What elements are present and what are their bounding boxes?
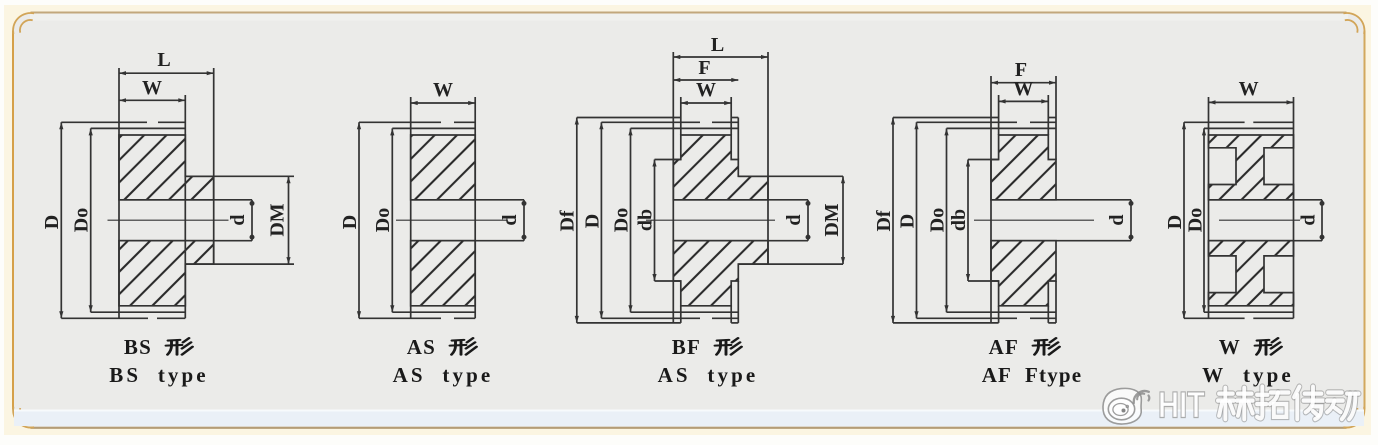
svg-text:d: d xyxy=(1106,214,1128,225)
W root line top xyxy=(1204,127,1294,129)
BS tip line bottom xyxy=(61,317,148,319)
AF web shoulder lines (db) xyxy=(968,159,999,161)
BF flange tip lines top (Df) xyxy=(577,117,681,119)
BF tip line top dashed xyxy=(601,121,700,123)
frame top border xyxy=(31,12,1347,14)
svg-text:D: D xyxy=(41,215,63,229)
AF right flange inner face xyxy=(1047,95,1049,135)
BS hub faces extended to DM dim xyxy=(185,175,294,177)
W hatched section top with side pockets xyxy=(1209,135,1294,200)
svg-text:W: W xyxy=(696,79,716,101)
svg-text:BS type: BS type xyxy=(109,363,208,387)
BS body right edge xyxy=(184,95,186,318)
AF left flange inner face / W extension xyxy=(998,95,1000,135)
dimension d (AF) xyxy=(1130,200,1132,241)
dimension DM (BS) xyxy=(288,176,290,264)
dimension Df (AF) xyxy=(892,118,894,323)
svg-text:Do: Do xyxy=(372,208,394,232)
svg-text:DM: DM xyxy=(267,203,289,236)
svg-text:W type: W type xyxy=(1202,363,1294,387)
AS centerline xyxy=(396,219,508,221)
svg-text:W: W xyxy=(1219,335,1241,359)
AS hatched section bottom xyxy=(411,241,476,306)
svg-text:Df: Df xyxy=(557,210,579,231)
watermark weibo icon xyxy=(1103,388,1149,424)
corner arcs top-right xyxy=(1343,13,1364,34)
dimension d (W) xyxy=(1321,200,1323,241)
dimension W (W) xyxy=(1209,101,1294,103)
dimension db (AF) xyxy=(967,160,969,282)
dimension D (BS) xyxy=(60,122,62,318)
watermark char 动 xyxy=(1327,392,1359,419)
AF flange tip lines top (Df) xyxy=(893,117,999,119)
AS tip line bottom xyxy=(359,317,441,319)
svg-text:BS: BS xyxy=(124,335,152,359)
svg-text:Do: Do xyxy=(1184,208,1206,232)
dimension D (W) xyxy=(1183,122,1185,318)
dimension W (AS) xyxy=(411,102,476,104)
AF root line top xyxy=(947,127,1057,129)
svg-text:d: d xyxy=(1298,214,1320,225)
AS body left edge xyxy=(410,97,412,318)
BF root line bottom xyxy=(631,311,739,313)
svg-text:D: D xyxy=(581,214,603,228)
dimension Do (BS) xyxy=(90,128,92,312)
corner arcs top-left xyxy=(13,13,34,34)
BS hub right edge / L extension xyxy=(213,68,215,264)
W tip line top xyxy=(1184,121,1245,123)
BF tip line bottom xyxy=(601,317,700,319)
BF right flange inner face xyxy=(730,97,732,135)
svg-text:d: d xyxy=(499,214,521,225)
BS body left edge / extension xyxy=(118,68,120,318)
svg-text:db: db xyxy=(634,209,656,231)
BS root line bottom xyxy=(91,311,186,313)
BF hatched section bottom xyxy=(673,241,768,306)
BS centerline xyxy=(108,219,229,221)
svg-text:D: D xyxy=(1164,215,1186,229)
svg-text:F: F xyxy=(698,57,710,79)
svg-text:Df: Df xyxy=(873,210,895,231)
dimension F (BF) xyxy=(673,79,738,81)
svg-text:db: db xyxy=(948,209,970,231)
AS tip line top xyxy=(359,121,441,123)
AF tip line bottom xyxy=(917,317,1018,319)
watermark light band xyxy=(14,410,1364,427)
W body right edge xyxy=(1293,97,1295,318)
AF centerline xyxy=(974,219,1094,221)
svg-text:W: W xyxy=(433,79,453,101)
AF left flange outer face / F extension xyxy=(990,76,992,323)
BF web shoulder lines (db) xyxy=(655,159,681,161)
BF left flange outer face / L,F extension xyxy=(672,52,674,323)
AS root line bottom xyxy=(392,311,475,313)
watermark char 拓 xyxy=(1257,387,1289,419)
svg-text:HIT: HIT xyxy=(1158,385,1205,426)
svg-text:W: W xyxy=(1013,78,1033,100)
svg-text:AF Ftype: AF Ftype xyxy=(982,363,1083,387)
svg-text:Do: Do xyxy=(926,208,948,232)
svg-text:D: D xyxy=(339,215,361,229)
dimension d (BS) xyxy=(251,200,253,241)
dimension F (AF) xyxy=(991,82,1056,84)
svg-text:AS type: AS type xyxy=(393,363,494,387)
AS body right edge xyxy=(474,97,476,318)
AS root line top xyxy=(392,127,475,129)
BS root line top (Do) xyxy=(91,127,186,129)
BF centerline xyxy=(646,219,775,221)
svg-text:L: L xyxy=(157,49,170,71)
dimension W (BS) xyxy=(119,99,185,101)
AF hatched section bottom xyxy=(991,241,1056,306)
AF flange tip lines bottom xyxy=(893,322,999,324)
svg-text:DM: DM xyxy=(821,203,843,236)
svg-text:W: W xyxy=(142,77,162,99)
svg-text:L: L xyxy=(711,34,724,56)
dimension Df (BF) xyxy=(576,118,578,323)
svg-text:d: d xyxy=(783,214,805,225)
BF bore lines xyxy=(673,199,808,201)
watermark char 传 xyxy=(1294,387,1323,419)
corner arcs bottom-left xyxy=(13,407,34,428)
BF flange tip lines bottom xyxy=(577,322,681,324)
svg-text:W: W xyxy=(1239,78,1259,100)
dimension Do (AF) xyxy=(946,128,948,312)
BF left flange inner face / W extension xyxy=(680,97,682,135)
dimension d (BF) xyxy=(807,200,809,241)
frame bottom border xyxy=(31,427,1347,429)
AF tip line top dashed xyxy=(917,121,1018,123)
watermark char 赫 xyxy=(1218,388,1253,419)
BF hatched section top (teeth + web + hub) xyxy=(673,135,768,200)
frame right border xyxy=(1364,31,1366,410)
svg-text:AF: AF xyxy=(989,335,1019,359)
dimension D (AS) xyxy=(358,122,360,318)
BS hatched section bottom xyxy=(119,241,214,306)
BF hub right edge / L extension xyxy=(767,52,769,264)
svg-text:D: D xyxy=(896,214,918,228)
W body left edge xyxy=(1208,97,1210,318)
dimension Do (AS) xyxy=(391,128,393,312)
W hatched section bottom with side pockets xyxy=(1209,241,1294,306)
W bore lines xyxy=(1209,199,1323,201)
AS hatched section top xyxy=(411,135,476,200)
AF root line bottom xyxy=(947,311,1057,313)
dimension L (BS) xyxy=(119,72,214,74)
dimension W (BF) xyxy=(681,102,731,104)
svg-text:AS type: AS type xyxy=(658,363,759,387)
dimension db (BF) xyxy=(654,160,656,282)
AS bore lines xyxy=(411,199,524,201)
dimension W (AF) xyxy=(999,100,1049,102)
dimension D (BF) xyxy=(600,122,602,318)
BS bore lines xyxy=(119,199,252,201)
AF right flange outer face / F extension xyxy=(1055,76,1057,160)
BS hatched section top (body + hub) xyxy=(119,135,214,200)
frame left border xyxy=(12,31,14,410)
svg-text:Do: Do xyxy=(610,208,632,232)
dimension d (AS) xyxy=(523,200,525,241)
svg-text:d: d xyxy=(227,214,249,225)
BF right flange outer face xyxy=(737,118,739,160)
W centerline xyxy=(1219,219,1300,221)
svg-text:AS: AS xyxy=(407,335,436,359)
W tip line bottom xyxy=(1184,317,1245,319)
corner arcs bottom-right xyxy=(1343,407,1364,428)
dimension D (AF) xyxy=(916,122,918,318)
svg-text:Do: Do xyxy=(71,208,93,232)
dimension Do (BF) xyxy=(630,128,632,312)
svg-text:BF: BF xyxy=(672,335,701,359)
dimension Do (W) xyxy=(1203,128,1205,312)
dimension L (BF) xyxy=(673,56,768,58)
dimension DM (BF) xyxy=(842,176,844,264)
AF hatched section top (teeth + web) xyxy=(991,135,1056,200)
BF hub faces extended to DM dim xyxy=(738,175,843,177)
AF bore lines xyxy=(991,199,1131,201)
BS tip line top (D outside diameter) xyxy=(61,121,147,123)
W root line bottom xyxy=(1204,311,1294,313)
BF root line top xyxy=(631,127,739,129)
